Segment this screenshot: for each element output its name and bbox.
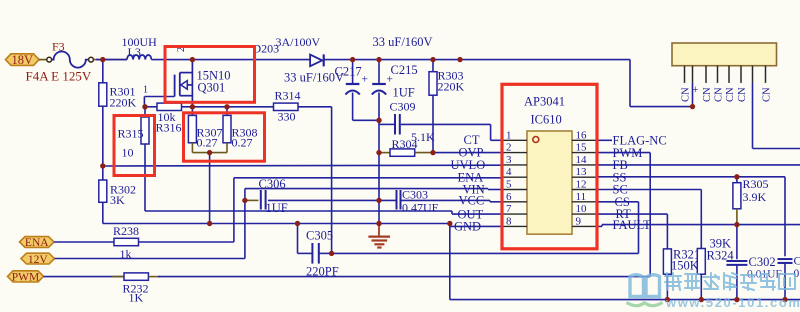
pin1 indicator <box>533 137 539 143</box>
resistor R304 <box>390 149 415 156</box>
watermark text <box>665 273 795 290</box>
resistor R308 top lead <box>226 107 228 116</box>
svg-text:CN: CN <box>681 87 692 102</box>
svg-text:0.47UF: 0.47UF <box>402 201 439 215</box>
power flag 18V <box>6 54 40 66</box>
svg-text:C217: C217 <box>335 65 362 79</box>
wire flag to fuse <box>39 59 47 61</box>
svg-text:C3: C3 <box>794 254 800 268</box>
resistor R307 <box>188 115 196 142</box>
svg-text:C302: C302 <box>749 255 776 269</box>
svg-text:5.1K: 5.1K <box>411 130 435 144</box>
port flag PWM <box>8 271 44 282</box>
wire Q301 gate <box>144 96 174 98</box>
wire rail drop to connector <box>629 60 631 107</box>
svg-text:15: 15 <box>576 142 588 154</box>
wire C215 ground column <box>378 93 380 224</box>
wire fuse to node <box>94 59 128 61</box>
svg-text:1UF: 1UF <box>393 86 415 100</box>
resistor R303 body <box>429 72 437 96</box>
svg-text:1UF: 1UF <box>266 201 288 215</box>
svg-text:10: 10 <box>122 146 134 160</box>
svg-text:220K: 220K <box>110 96 137 110</box>
wire connector pin2 to 18V rail <box>692 83 694 107</box>
svg-text:IC610: IC610 <box>531 113 562 127</box>
svg-text:VCC: VCC <box>459 194 485 208</box>
capacitor C302 <box>736 225 738 260</box>
svg-text:5: 5 <box>506 179 512 191</box>
wire GND rail <box>103 223 450 225</box>
svg-text:150K: 150K <box>671 259 699 273</box>
wire UVLO <box>103 164 502 167</box>
wire GND drop to bus <box>449 226 451 299</box>
wire FLAG-NC stub <box>597 139 612 141</box>
wire R316 to R314 <box>182 106 274 108</box>
wire PWM from pin15 <box>597 152 650 154</box>
svg-text:7: 7 <box>506 203 512 215</box>
svg-text:3A/100V: 3A/100V <box>276 35 321 49</box>
wire OVP <box>379 152 390 154</box>
wire L3 to D203 anode <box>151 59 310 61</box>
svg-text:C305: C305 <box>306 229 333 243</box>
port flag ENA <box>20 237 55 248</box>
svg-text:GND: GND <box>454 220 481 234</box>
wire VIN <box>245 188 488 190</box>
wire PWM to R232 <box>44 276 125 278</box>
svg-text:2: 2 <box>506 142 512 154</box>
wire ENA to pin4 <box>234 177 502 179</box>
svg-text:Q301: Q301 <box>198 81 226 95</box>
svg-text:3K: 3K <box>110 193 125 207</box>
resistor R238 <box>114 238 139 245</box>
fuse F3 <box>47 57 52 62</box>
svg-text:F4A E 125V: F4A E 125V <box>26 69 92 84</box>
wire connector pin7 down <box>752 83 754 149</box>
wire R238 to riser <box>139 241 234 243</box>
svg-text:CN: CN <box>702 87 713 102</box>
wire OUT jog <box>451 211 453 214</box>
highlight box R315 <box>114 116 155 176</box>
svg-text:www.520-101.com: www.520-101.com <box>665 295 800 310</box>
svg-text:CN: CN <box>725 87 736 102</box>
svg-text:C215: C215 <box>391 63 418 77</box>
resistor R315 <box>141 117 149 144</box>
resistor R321 <box>666 248 668 250</box>
svg-text:AP3041: AP3041 <box>524 95 565 109</box>
wire CS from pin11 <box>597 201 639 203</box>
wire R302 to GND rail <box>102 202 104 223</box>
svg-text:R324: R324 <box>707 249 735 263</box>
IC right pin stubs <box>572 139 597 141</box>
wire R315 to OUT <box>144 144 146 211</box>
svg-text:12: 12 <box>576 179 587 191</box>
resistor R302 <box>99 180 107 202</box>
svg-text:4: 4 <box>506 166 512 178</box>
svg-text:33 uF/160V: 33 uF/160V <box>373 35 433 49</box>
connector pins <box>684 66 686 83</box>
svg-text:F3: F3 <box>52 40 65 54</box>
wire FAULT from pin9 <box>597 225 602 227</box>
svg-text:R314: R314 <box>275 89 301 103</box>
svg-text:0.27: 0.27 <box>232 136 253 150</box>
svg-text:220K: 220K <box>438 80 465 94</box>
resistor R308 <box>223 115 231 142</box>
wire FB from pin14 <box>597 164 800 166</box>
svg-text:330: 330 <box>278 110 296 124</box>
svg-text:FAULT: FAULT <box>613 218 652 232</box>
svg-text:9: 9 <box>576 215 582 227</box>
svg-text:1: 1 <box>143 85 148 96</box>
wire VCC from C306 <box>268 199 397 201</box>
transistor Q301 drain wire <box>191 60 193 107</box>
resistor R314 <box>274 103 299 110</box>
junction dots <box>100 57 105 62</box>
op-amp U1 AP3041 IC610 body <box>527 131 572 234</box>
resistor R232 <box>124 273 148 280</box>
svg-text:CN: CN <box>714 87 725 102</box>
resistor R316 10k <box>157 103 182 110</box>
svg-text:18V: 18V <box>11 53 33 67</box>
highlight box Q301 <box>165 47 255 103</box>
svg-text:R316: R316 <box>156 121 182 135</box>
wire RT from pin10 <box>597 213 667 215</box>
svg-text:CN: CN <box>762 87 773 102</box>
svg-text:+: + <box>362 74 369 86</box>
svg-text:CN: CN <box>737 87 748 102</box>
resistor R321 body <box>663 249 671 274</box>
IC left pin stubs <box>502 139 527 141</box>
resistor R303 <box>432 60 434 72</box>
wire R232 to PWM riser <box>158 276 650 278</box>
svg-text:0.27: 0.27 <box>197 136 218 150</box>
svg-text:1: 1 <box>506 129 512 141</box>
wire SS from pin13 <box>597 176 785 178</box>
svg-text:8: 8 <box>506 215 512 227</box>
watermark logo book <box>630 275 660 297</box>
svg-text:13: 13 <box>576 166 588 178</box>
svg-text:ENA: ENA <box>25 237 49 249</box>
svg-text:PWM: PWM <box>12 272 39 284</box>
svg-text:C309: C309 <box>390 100 416 114</box>
svg-text:1K: 1K <box>129 291 144 305</box>
svg-text:C303: C303 <box>402 188 428 202</box>
wire C303 to VCC pin <box>401 199 491 201</box>
wire node1 rail <box>144 106 157 108</box>
wire CS return <box>332 252 639 254</box>
highlight box IC610 <box>502 84 597 249</box>
svg-text:6: 6 <box>506 191 512 203</box>
svg-text:11: 11 <box>576 191 587 203</box>
svg-text:14: 14 <box>576 154 588 166</box>
resistor R305 body <box>733 183 741 209</box>
connector CN header <box>672 43 777 66</box>
wire sense node down <box>209 153 211 224</box>
capacitor C31x at edge <box>778 258 793 260</box>
port flag 12V <box>21 253 55 264</box>
wire 18V node down <box>102 60 104 83</box>
svg-text:R238: R238 <box>113 224 139 238</box>
resistor R307 top lead <box>191 107 193 116</box>
ground symbol <box>378 224 380 236</box>
wire ENA to R238 <box>54 241 114 243</box>
svg-text:3.9K: 3.9K <box>743 190 767 204</box>
wire R301 to R302 <box>102 106 104 180</box>
svg-text:16: 16 <box>576 129 588 141</box>
svg-text:C306: C306 <box>259 177 286 191</box>
resistor R324 body <box>697 249 705 275</box>
wire D203 cathode to rail <box>324 59 630 61</box>
svg-text:3: 3 <box>506 154 512 166</box>
svg-text:220PF: 220PF <box>306 265 339 279</box>
wire node1 to R315 <box>144 107 146 117</box>
resistor R305 <box>736 177 738 183</box>
svg-text:12V: 12V <box>28 254 49 266</box>
wire 12V <box>55 258 245 260</box>
wire R307 R308 bottoms <box>191 143 193 153</box>
svg-text:+: + <box>387 74 394 86</box>
svg-text:10: 10 <box>576 203 588 215</box>
svg-text:R315: R315 <box>118 127 144 141</box>
wire C309 to CT pin <box>401 123 491 125</box>
wire R314 to C305 column <box>298 106 332 108</box>
transistor Q301 15N10 symbol <box>174 75 176 97</box>
capacitor C305 <box>297 224 299 254</box>
wire SC from pin12 <box>597 189 701 191</box>
resistor R301 <box>99 83 107 106</box>
svg-text:R305: R305 <box>743 177 769 191</box>
highlight box R307 R308 <box>184 113 265 161</box>
